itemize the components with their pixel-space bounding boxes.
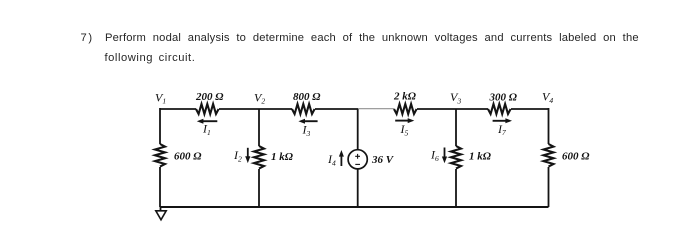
resistor 1kohm (V2 branch) [254,146,264,169]
svg-text:300 Ω: 300 Ω [489,91,518,103]
svg-text:I2: I2 [233,148,242,163]
wire top rail V1 to R200 [160,108,196,110]
svg-text:V2: V2 [254,90,265,105]
resistor 1kohm (V3 branch) [451,146,461,169]
current arrow I5 (right) [395,118,414,123]
wire 36V branch top [357,109,359,150]
resistor 2kohm [394,104,417,114]
svg-text:I5: I5 [400,122,409,137]
plus sign [355,154,360,159]
svg-text:V1: V1 [155,90,166,105]
resistor 600ohm right [544,144,554,167]
svg-text:V4: V4 [542,90,553,105]
svg-text:600 Ω: 600 Ω [174,150,202,162]
wire V3 branch top [455,109,457,146]
resistor 600ohm left [155,144,165,167]
svg-text:800 Ω: 800 Ω [293,91,321,103]
resistor 300ohm [488,104,511,114]
problem text line 2 [105,53,196,64]
wire right vertical bottom [548,167,550,207]
current arrow I4 (up) [339,150,344,166]
wire V2 branch top [258,109,260,146]
svg-text:I4: I4 [327,152,336,167]
svg-text:I7: I7 [497,122,507,137]
resistor 800ohm [292,104,315,114]
voltage source 36V circle [348,150,367,169]
ground [156,207,166,220]
svg-text:1 kΩ: 1 kΩ [469,151,492,163]
wire 36V branch bottom [357,169,359,207]
svg-text:36 V: 36 V [371,154,395,166]
wire right vertical top [548,108,550,144]
svg-text:I3: I3 [302,123,311,138]
svg-text:I6: I6 [430,148,439,163]
resistor 200ohm [196,104,219,114]
current arrow I7 (right) [493,118,512,123]
problem text line 1 [81,33,94,44]
current arrow I2 (down) [245,148,250,163]
wire R200 to V2 to R800 [219,108,292,110]
wire left vertical bottom [159,167,161,207]
wire R800 to 36V branch [315,108,358,110]
svg-text:600 Ω: 600 Ω [562,151,590,163]
wire left vertical top [159,108,161,144]
current arrow I3 (left) [298,119,317,124]
wire V3 branch bottom [455,169,457,207]
svg-text:2 kΩ: 2 kΩ [393,91,417,103]
svg-text:200 Ω: 200 Ω [195,91,224,103]
svg-text:1 kΩ: 1 kΩ [271,151,294,163]
wire R300 to V4 corner [511,108,549,110]
wire 36V branch to R2k (light) [358,108,394,110]
current arrow I6 (down) [442,148,447,164]
wire R2k to V3 to R300 [417,108,488,110]
minus sign [355,163,360,165]
wire bottom rail [160,206,549,208]
wire V2 branch bottom [258,169,260,207]
svg-text:V3: V3 [450,90,461,105]
svg-text:I1: I1 [202,122,211,137]
current arrow I1 (left) [197,119,218,124]
